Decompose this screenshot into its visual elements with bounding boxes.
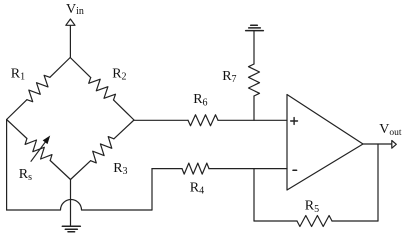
op-amp + pin xyxy=(291,118,298,125)
wire - input drop to R5 xyxy=(253,169,255,221)
wire left drop xyxy=(6,120,8,211)
svg-text:R2: R2 xyxy=(112,67,126,83)
ground (top, R7) xyxy=(246,25,264,30)
Vout arrow xyxy=(392,141,397,149)
resistor R4 xyxy=(152,168,182,170)
resistor R3 xyxy=(71,161,91,180)
svg-text:R1: R1 xyxy=(11,67,25,83)
svg-text:Vout: Vout xyxy=(379,122,402,138)
resistor R5 xyxy=(254,220,297,222)
svg-text:R3: R3 xyxy=(113,161,127,177)
svg-text:Rs: Rs xyxy=(19,167,32,183)
resistor R7 xyxy=(253,31,255,64)
op-amp U1 xyxy=(287,95,363,191)
resistor R2 xyxy=(70,58,91,78)
wire bottom with hop xyxy=(7,200,152,211)
resistor R1 xyxy=(7,100,27,120)
ground (bridge) xyxy=(62,226,80,232)
svg-text:R4: R4 xyxy=(190,180,204,196)
wire output xyxy=(363,143,392,145)
svg-text:R5: R5 xyxy=(305,199,319,215)
Rs wiper arrow xyxy=(31,142,45,161)
wire up to R4 line xyxy=(151,169,153,210)
wire feedback up xyxy=(377,144,379,221)
wire bottom node to ground xyxy=(70,180,72,227)
op-amp - pin xyxy=(293,169,297,171)
Vin arrow xyxy=(69,26,71,58)
svg-text:R7: R7 xyxy=(222,69,236,85)
resistor R6 xyxy=(188,115,218,126)
wire + input from bridge right node xyxy=(134,119,188,121)
resistor Rs (variable) xyxy=(7,120,27,139)
svg-text:R6: R6 xyxy=(193,92,207,108)
svg-text:Vin: Vin xyxy=(66,2,84,17)
